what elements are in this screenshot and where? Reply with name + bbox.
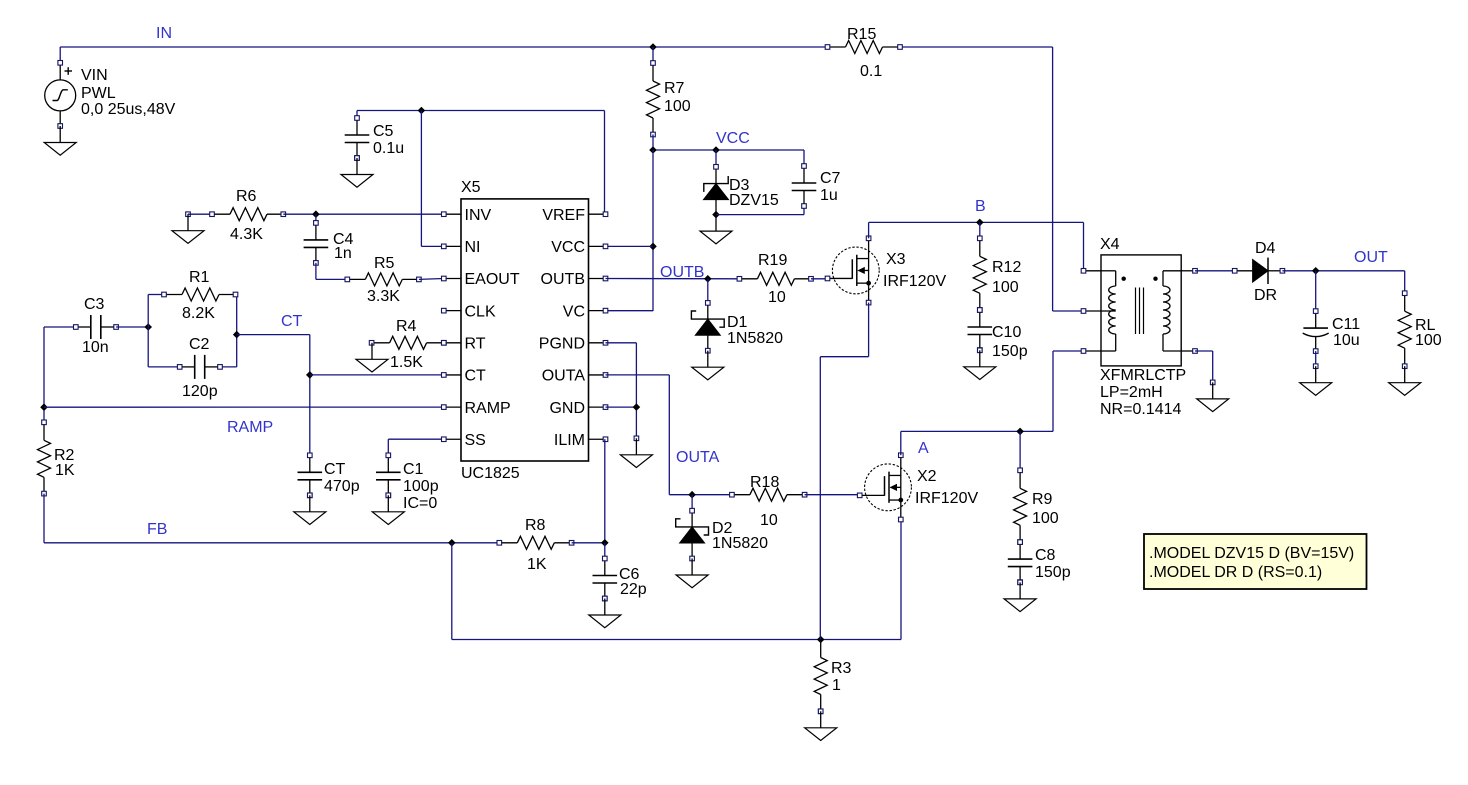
ground [620,436,652,468]
op-amp U X5 UC1825 PWM controller [442,199,608,461]
ground [1197,380,1229,412]
net label OUT [1354,249,1388,266]
wire [604,543,606,559]
R2 labels [54,447,75,479]
svg-text:4.3K: 4.3K [230,226,263,243]
capacitor C8 [1008,540,1033,585]
svg-text:.MODEL DZV15 D (BV=15V): .MODEL DZV15 D (BV=15V) [1149,545,1354,562]
wire CT pin [310,374,444,376]
wire [60,46,1052,48]
wire [811,278,827,280]
svg-text:C1: C1 [403,461,424,478]
svg-text:X5: X5 [461,179,481,196]
svg-text:100: 100 [1032,510,1059,527]
svg-text:ILIM: ILIM [554,432,585,449]
resistor R18 [730,488,807,501]
D1 labels [727,314,783,347]
transistor X3 IRF120V [825,236,879,305]
svg-text:1K: 1K [527,556,547,573]
CT cap labels [324,461,360,495]
ground [1300,364,1332,396]
svg-text:VCC: VCC [716,130,750,147]
resistor R12 [973,236,986,312]
svg-text:NR=0.1414: NR=0.1414 [1100,401,1181,418]
R3 labels [831,660,852,694]
ground [341,156,373,188]
svg-text:RT: RT [465,336,486,353]
wire [283,213,444,215]
node junction [817,636,825,644]
resistor R1 [162,288,238,301]
svg-text:1u: 1u [820,187,838,204]
svg-text:LP=2mH: LP=2mH [1100,384,1163,401]
C11 labels [1332,316,1360,349]
wire [43,327,45,422]
node junction [649,43,657,51]
node junction [312,210,320,218]
R6 labels [230,188,263,243]
model directive box [1144,534,1367,589]
R1 labels [182,269,215,322]
wire [652,150,654,311]
svg-text:IRF120V: IRF120V [915,490,978,507]
C10 labels [992,324,1028,360]
svg-text:1n: 1n [334,245,352,262]
svg-text:C7: C7 [820,170,841,187]
capacitor CT [298,453,323,498]
svg-text:.MODEL DR D (RS=0.1): .MODEL DR D (RS=0.1) [1149,564,1322,581]
wire VC pin [606,310,654,312]
capacitor C7 [792,164,817,209]
svg-text:100: 100 [992,279,1019,296]
svg-text:X3: X3 [886,251,906,268]
node junction [1312,267,1320,275]
D3 labels [729,177,779,209]
wire VCC pin [606,245,654,247]
D4 labels [1254,240,1277,304]
wire RAMP [44,406,444,408]
svg-text:A: A [918,440,929,457]
ground [356,343,388,372]
R8 labels [525,517,547,573]
svg-text:C8: C8 [1035,547,1056,564]
net label A [918,440,929,457]
svg-text:GND: GND [549,400,585,417]
node junction [306,371,314,379]
C4 labels [333,231,354,262]
svg-text:8.2K: 8.2K [182,305,215,322]
wire [572,542,605,544]
wire [716,206,804,215]
svg-text:3.3K: 3.3K [367,288,400,305]
ground [1389,366,1421,395]
diode D4 [1232,258,1284,284]
svg-text:R5: R5 [374,255,395,272]
wire [606,375,732,495]
svg-text:CT: CT [324,461,346,478]
svg-text:120p: 120p [182,383,218,400]
ground [172,212,204,244]
node junction [688,491,696,499]
svg-text:RAMP: RAMP [227,419,273,436]
wire [1053,47,1084,311]
capacitor C11 [1303,309,1329,354]
X3 labels [883,251,946,290]
svg-text:IC=0: IC=0 [403,495,437,512]
svg-text:R12: R12 [992,259,1021,276]
wire X3 source [820,303,868,640]
svg-text:1: 1 [832,677,841,694]
resistor R5 [345,273,421,286]
svg-text:CT: CT [281,313,303,330]
svg-text:10: 10 [768,289,786,306]
svg-text:100p: 100p [403,478,439,495]
svg-text:VIN: VIN [81,67,108,84]
wire [1315,351,1317,366]
resistor R2 [38,420,51,496]
wire [44,494,499,543]
ground [372,493,404,525]
node junction [418,107,426,115]
node junction [976,219,984,227]
R4 labels [390,318,423,371]
svg-text:22p: 22p [620,581,647,598]
wire [356,111,358,119]
wire [805,494,860,496]
net label IN [156,25,172,42]
svg-text:OUTA: OUTA [676,449,720,466]
X4 labels [1100,236,1186,418]
net label FB [147,521,167,538]
svg-text:INV: INV [465,207,492,224]
svg-text:R9: R9 [1032,491,1053,508]
svg-text:C5: C5 [373,123,394,140]
resistor R15 [825,41,902,54]
node junction [144,323,152,331]
svg-text:D1: D1 [727,314,748,331]
wire [900,431,902,455]
R7 labels [664,80,691,115]
svg-text:10: 10 [760,512,778,529]
svg-text:OUTA: OUTA [542,368,586,385]
svg-text:R3: R3 [831,660,852,677]
R19 labels [758,252,787,306]
svg-text:470p: 470p [324,478,360,495]
svg-text:X4: X4 [1100,236,1120,253]
svg-text:PGND: PGND [539,336,585,353]
ground [692,351,724,380]
svg-text:DZV15: DZV15 [729,192,779,209]
svg-text:C11: C11 [1332,316,1360,333]
wire [1019,431,1021,470]
svg-text:EAOUT: EAOUT [465,271,520,288]
wire [220,295,236,367]
wire [901,351,1084,431]
wire [868,222,870,238]
wire [421,111,443,247]
resistor R9 [1014,468,1027,544]
svg-text:X2: X2 [917,468,937,485]
wire [316,263,347,280]
ground [44,124,76,156]
C7 labels [820,170,841,204]
svg-text:FB: FB [147,521,167,538]
node junction [633,403,641,411]
wire [452,520,901,640]
X2 labels [915,468,978,507]
C3 labels [82,296,109,356]
svg-text:OUT: OUT [1354,249,1388,266]
svg-text:1N5820: 1N5820 [727,330,783,347]
svg-text:R4: R4 [396,318,417,335]
node junction [601,539,609,547]
svg-text:IN: IN [156,25,172,42]
wire [869,222,1084,270]
capacitor C4 [304,221,329,266]
svg-text:CT: CT [465,368,487,385]
svg-text:UC1825: UC1825 [461,465,520,482]
transistor X2 IRF120V [857,453,911,522]
svg-text:0.1: 0.1 [860,63,882,80]
C6 labels [619,566,647,598]
capacitor C3 [74,315,119,339]
wire SS [388,439,444,455]
wire [652,47,654,63]
wire [357,111,605,215]
svg-text:R19: R19 [758,252,787,269]
capacitor C5 [345,116,370,161]
resistor RL [1398,291,1411,369]
resistor R7 [647,61,660,137]
wire [606,278,740,280]
wire [715,150,717,167]
schottky diode D2 [676,508,709,560]
C1 labels [403,461,439,512]
resistor R8 [497,536,574,549]
svg-text:1N5820: 1N5820 [712,535,768,552]
svg-text:RAMP: RAMP [465,400,511,417]
svg-text:PWL: PWL [81,85,116,102]
svg-text:10n: 10n [82,339,109,356]
capacitor C10 [968,308,993,353]
wire [1282,271,1404,293]
svg-text:R6: R6 [236,188,257,205]
svg-text:R18: R18 [750,474,779,491]
svg-text:D4: D4 [1255,240,1276,257]
node junction [40,403,48,411]
ground [1004,580,1036,612]
wire [1195,270,1235,272]
svg-text:R15: R15 [847,26,876,43]
wire CT [237,335,310,456]
svg-text:VC: VC [563,303,585,320]
svg-text:0,0 25us,48V: 0,0 25us,48V [81,101,176,118]
C5 labels [373,123,404,157]
R18 labels [750,474,779,529]
wire [188,213,212,215]
wire [979,222,981,238]
svg-text:VREF: VREF [542,207,585,224]
svg-text:B: B [975,198,986,215]
C2 labels [182,336,218,400]
svg-text:DR: DR [1254,287,1277,304]
schottky diode D1 [691,301,724,353]
svg-text:150p: 150p [1035,564,1071,581]
wire [803,150,805,166]
D2 labels [712,520,768,552]
voltage source VIN [45,61,76,127]
svg-text:NI: NI [465,239,481,256]
node junction [649,146,657,154]
wire [707,279,709,303]
svg-text:CLK: CLK [465,303,496,320]
ground [805,709,837,741]
capacitor C6 [593,556,618,601]
ground [294,493,326,525]
wire ILIM [604,439,606,543]
wire [1195,351,1213,382]
capacitor C1 [376,453,401,498]
transformer X4 XFMRLCTP [1081,255,1197,366]
resistor R6 [210,208,286,221]
net label OUTA [676,449,720,466]
R5 labels [367,255,400,305]
svg-text:C10: C10 [992,324,1021,341]
wire [1315,271,1317,311]
svg-text:R8: R8 [525,517,546,534]
node junction [712,146,720,154]
ground [964,348,996,380]
svg-text:0.1u: 0.1u [373,140,404,157]
svg-text:150p: 150p [992,343,1028,360]
svg-text:OUTB: OUTB [541,271,585,288]
svg-text:1K: 1K [55,462,75,479]
node junction [649,243,657,251]
net label OUTB [660,264,704,281]
svg-text:1.5K: 1.5K [390,354,423,371]
node junction [712,211,720,219]
svg-text:XFMRLCTP: XFMRLCTP [1100,367,1186,384]
R9 labels [1032,491,1059,527]
node junction [704,275,712,283]
net label CT [281,313,303,330]
wire [116,326,148,328]
svg-text:SS: SS [465,432,486,449]
resistor R4 [369,336,446,349]
svg-text:IRF120V: IRF120V [883,273,946,290]
X5 designator [461,179,481,196]
node junction [1016,428,1024,436]
net label VCC [716,130,750,147]
VIN labels [81,67,176,118]
wire [148,295,180,367]
resistor R19 [737,272,813,285]
net label B [975,198,986,215]
R12 labels [992,259,1021,296]
wire [59,47,61,63]
RL labels [1415,317,1442,349]
svg-text:C2: C2 [189,336,210,353]
node junction [233,331,241,339]
svg-text:C3: C3 [84,296,105,313]
svg-text:10u: 10u [1333,332,1360,349]
R15 labels [847,26,882,80]
wire [652,135,654,151]
svg-text:R7: R7 [664,80,685,97]
ground [700,215,732,244]
capacitor C2 [177,355,222,379]
X5 value [461,465,520,482]
ground [676,559,708,588]
wire [419,278,444,281]
net label RAMP [227,419,273,436]
wire [691,495,693,511]
wire [606,343,637,439]
wire [44,326,76,328]
ground [589,596,621,628]
zener diode D3 [704,165,729,215]
wire [653,149,804,151]
svg-text:100: 100 [664,98,691,115]
node junction [448,539,456,547]
svg-text:R1: R1 [189,269,210,286]
svg-text:VCC: VCC [551,239,585,256]
resistor R3 [814,640,827,714]
svg-text:100: 100 [1415,332,1442,349]
C8 labels [1035,547,1071,581]
wire [315,214,317,223]
